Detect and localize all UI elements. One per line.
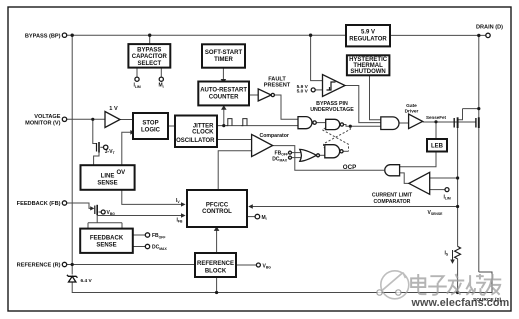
svg-text:SenseFet: SenseFet — [426, 115, 447, 120]
svg-text:Gate: Gate — [406, 103, 417, 109]
svg-text:FEEDBACK: FEEDBACK — [90, 236, 124, 242]
svg-text:AUTO-RESTART: AUTO-RESTART — [200, 88, 247, 94]
svg-text:REFERENCE (R): REFERENCE (R) — [17, 263, 61, 269]
svg-text:OSCILLATOR: OSCILLATOR — [176, 138, 215, 144]
svg-text:SHUTDOWN: SHUTDOWN — [350, 69, 385, 75]
svg-text:MONITOR (V): MONITOR (V) — [25, 120, 60, 126]
svg-text:CONTROL: CONTROL — [202, 209, 232, 215]
svg-text:REGULATOR: REGULATOR — [349, 37, 387, 43]
svg-text:OCP: OCP — [343, 164, 356, 171]
svg-text:DRAIN (D): DRAIN (D) — [476, 25, 503, 31]
svg-text:BYPASS PIN: BYPASS PIN — [316, 101, 348, 107]
svg-text:BYPASS (BP): BYPASS (BP) — [25, 33, 61, 39]
svg-text:5.9 V: 5.9 V — [361, 30, 375, 36]
svg-text:LEB: LEB — [431, 144, 444, 150]
svg-text:UNDERVOLTAGE: UNDERVOLTAGE — [310, 107, 354, 113]
svg-text:Driver: Driver — [405, 109, 419, 115]
svg-text:5.0 V: 5.0 V — [297, 89, 309, 95]
svg-text:REFERENCE: REFERENCE — [197, 261, 234, 267]
svg-text:Comparator: Comparator — [259, 133, 288, 139]
svg-text:SELECT: SELECT — [137, 61, 161, 67]
svg-text:BYPASS: BYPASS — [137, 48, 161, 54]
svg-text:FEEDBACK (FB): FEEDBACK (FB) — [17, 201, 61, 207]
svg-text:PRESENT: PRESENT — [264, 83, 291, 89]
svg-text:COUNTER: COUNTER — [209, 95, 239, 101]
svg-text:LOGIC: LOGIC — [141, 127, 161, 133]
svg-text:SOURCE (S): SOURCE (S) — [473, 297, 502, 303]
svg-text:BLOCK: BLOCK — [205, 268, 227, 274]
svg-text:CAPACITOR: CAPACITOR — [132, 54, 168, 60]
svg-text:CURRENT LIMIT: CURRENT LIMIT — [372, 193, 413, 199]
svg-text:LINE: LINE — [101, 174, 115, 180]
svg-text:TIMER: TIMER — [214, 57, 233, 63]
svg-text:1 V: 1 V — [109, 106, 118, 112]
svg-text:SENSE: SENSE — [97, 181, 117, 187]
svg-text:COMPARATOR: COMPARATOR — [374, 199, 411, 205]
svg-text:SOFT-START: SOFT-START — [205, 50, 243, 56]
svg-text:SENSE: SENSE — [96, 243, 116, 249]
svg-text:PFC/CC: PFC/CC — [206, 203, 229, 209]
svg-text:VOLTAGE: VOLTAGE — [34, 114, 60, 120]
svg-text:CLOCK: CLOCK — [192, 130, 214, 136]
svg-text:OV: OV — [116, 170, 125, 176]
svg-text:STOP: STOP — [142, 120, 158, 126]
svg-text:6.4 V: 6.4 V — [81, 278, 93, 284]
